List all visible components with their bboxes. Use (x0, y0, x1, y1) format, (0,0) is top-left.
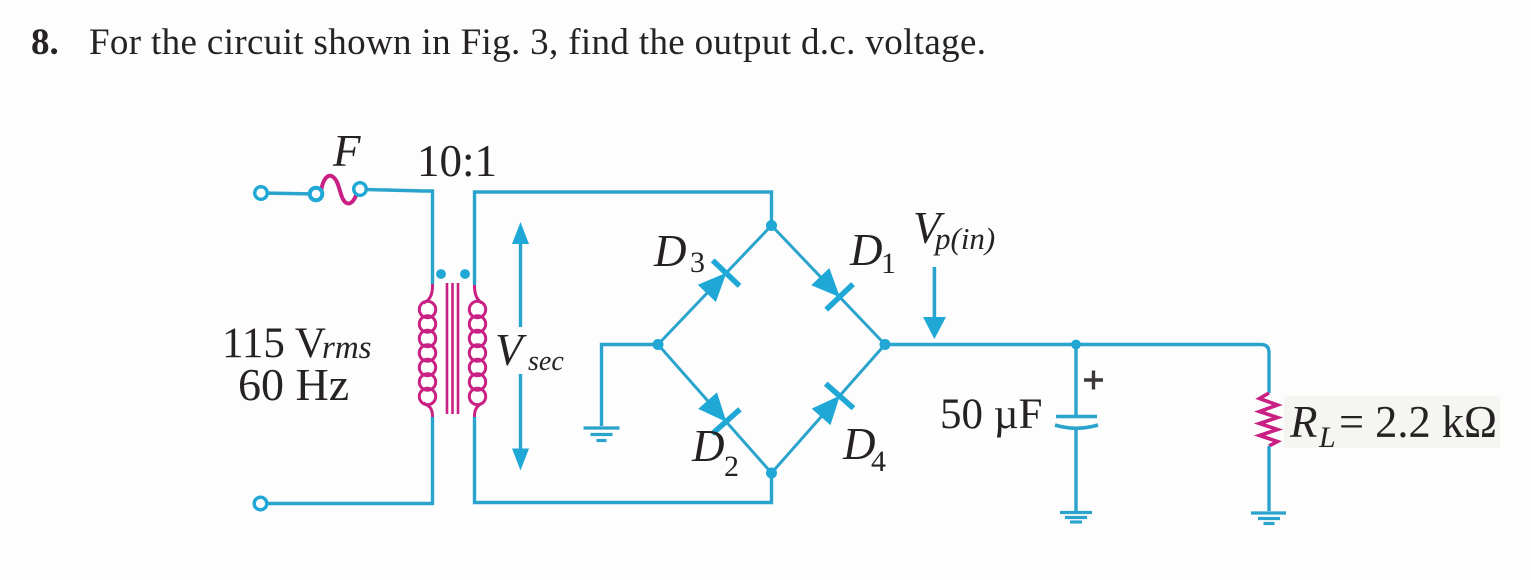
ground (capacitor) (1060, 513, 1092, 523)
primary winding (424, 284, 433, 303)
svg-text:F: F (332, 126, 361, 176)
diode D4 (807, 383, 854, 429)
wire: bridge left node to ground (602, 345, 659, 427)
wire: source lead from terminal to fuse (261, 193, 316, 194)
svg-text:L: L (1318, 421, 1336, 454)
svg-text:3: 3 (690, 246, 705, 279)
wire: output rail from bridge right node to load corner (885, 345, 1269, 394)
bridge: arm T-R (772, 226, 886, 345)
terminal (top input) (255, 187, 268, 200)
capacitor C1 50uF (1055, 345, 1098, 512)
terminal (bottom input) (254, 497, 267, 510)
node at capacitor junction (1071, 340, 1081, 350)
diode D3 (693, 260, 739, 306)
bridge: arm L-B (658, 345, 772, 474)
wire: fuse to primary top corner (366, 190, 433, 286)
Vsec measurement arrow (512, 222, 529, 471)
wire: resistor to ground (1267, 446, 1270, 511)
Vp(in) arrow (923, 267, 946, 339)
svg-text:8.: 8. (31, 22, 59, 63)
svg-text:2: 2 (724, 450, 739, 483)
diode D1 (807, 264, 853, 310)
svg-text:4: 4 (871, 445, 886, 478)
wire: secondary bottom lead and bottom rail to bridge (475, 417, 772, 503)
svg-text:= 2.2 kΩ: = 2.2 kΩ (1339, 397, 1497, 447)
svg-text:D: D (691, 421, 725, 471)
svg-text:p(in): p(in) (933, 221, 995, 256)
svg-text:For the circuit shown in Fig.: For the circuit shown in Fig. 3, find th… (89, 22, 986, 63)
faint scan shade (1284, 396, 1500, 448)
wire: primary bottom lead and bottom rail to terminal (267, 417, 433, 504)
wire: secondary top lead and top rail to bridge (475, 192, 772, 285)
transformer T1 (419, 269, 485, 418)
diode D2 (694, 388, 741, 434)
ground (load) (1251, 513, 1286, 524)
bridge: arm B-R (772, 345, 886, 474)
svg-text:D: D (653, 226, 687, 276)
svg-text:D: D (849, 225, 883, 275)
svg-text:1: 1 (881, 247, 896, 280)
svg-text:sec: sec (528, 346, 564, 377)
core lines (446, 283, 449, 414)
node B (bridge bottom) (766, 468, 777, 479)
node R (bridge right) (880, 339, 891, 350)
svg-text:50 µF: 50 µF (940, 391, 1042, 438)
svg-text:V: V (495, 325, 527, 375)
svg-text:10:1: 10:1 (417, 136, 497, 186)
phase dot secondary (460, 269, 470, 279)
fuse F (310, 176, 367, 204)
svg-text:R: R (1289, 397, 1318, 447)
resistor RL (1260, 393, 1278, 446)
node L (bridge left) (653, 339, 664, 350)
ground (bridge left) (584, 428, 620, 441)
plus polarity mark (1084, 371, 1103, 390)
node T (bridge top) (766, 220, 777, 231)
secondary winding (474, 284, 481, 303)
phase dot primary (436, 269, 446, 279)
svg-text:60 Hz: 60 Hz (238, 359, 349, 410)
bridge: arm L-T (658, 226, 772, 345)
